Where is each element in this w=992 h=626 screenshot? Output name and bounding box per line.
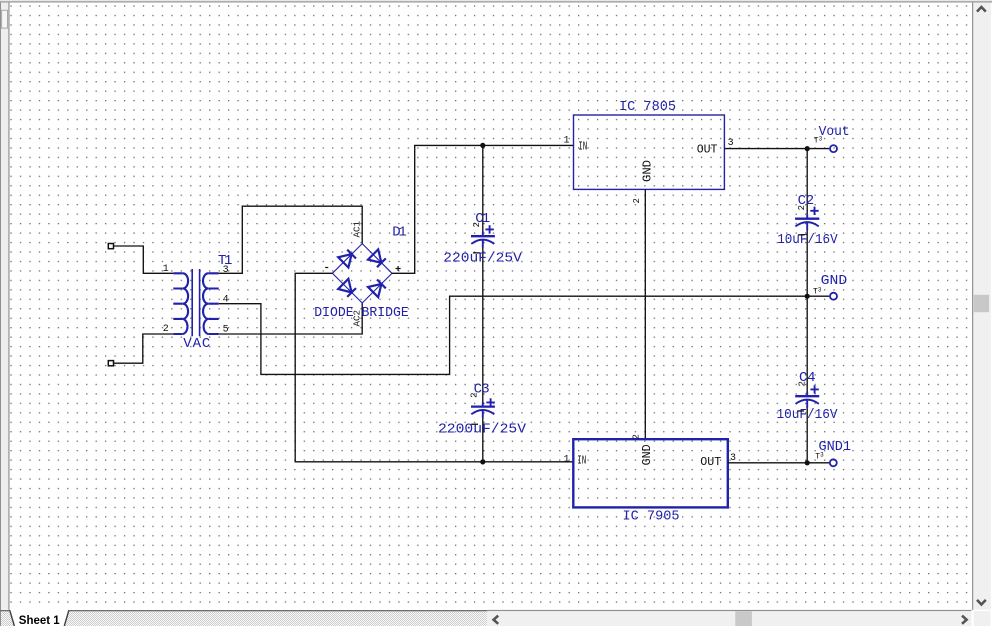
wire bridge minus to negative rail bbox=[295, 273, 573, 462]
wire P2 to T1 pin2 bbox=[114, 334, 174, 363]
junction GND1 rail / C4 bbox=[805, 460, 810, 465]
IC U2 7905 box bbox=[573, 439, 728, 507]
IC U1 7805 box bbox=[574, 115, 725, 189]
terminal T3 Vout circle bbox=[830, 145, 837, 152]
diode D1d (bottom-left) bbox=[338, 279, 356, 297]
horizontal scrollbar right arrow bbox=[962, 616, 967, 624]
C4 pin number 1 (rotated dash) bbox=[797, 410, 804, 411]
canvas bottom border bbox=[0, 610, 487, 611]
svg-text:2200uF/25V: 2200uF/25V bbox=[438, 422, 527, 438]
horizontal scrollbar left arrow bbox=[494, 616, 499, 624]
terminal P2 (bottom-left connector square) bbox=[108, 361, 113, 366]
canvas left border bbox=[8, 3, 9, 610]
capacitor C3 bbox=[471, 398, 495, 418]
transformer T1 secondary winding bbox=[203, 273, 219, 334]
wire C1-C3 vertical bbox=[482, 145, 484, 462]
vertical scrollbar track bbox=[973, 3, 991, 610]
svg-text:3: 3 bbox=[728, 138, 734, 149]
svg-text:GND: GND bbox=[640, 444, 654, 465]
vertical scrollbar thumb bbox=[974, 295, 989, 312]
wire U2 OUT to GND1 terminal bbox=[728, 462, 829, 464]
svg-text:AC1: AC1 bbox=[351, 221, 362, 238]
diode D1c (bottom-right) bbox=[368, 280, 386, 298]
junction GND rail / C2 C4 bbox=[805, 294, 810, 299]
capacitor C1 bbox=[471, 225, 495, 248]
capacitor C4 bbox=[795, 385, 819, 408]
wire T1 pin5 to bridge AC2 bbox=[219, 303, 363, 334]
wire bridge plus to positive rail bbox=[392, 145, 573, 273]
svg-text:AC2: AC2 bbox=[351, 310, 362, 327]
svg-text:2: 2 bbox=[798, 381, 808, 386]
svg-text:OUT: OUT bbox=[700, 455, 721, 469]
junction on negative rail at C3 bbox=[480, 459, 485, 464]
svg-text:Vout: Vout bbox=[819, 124, 850, 140]
svg-text:OUT: OUT bbox=[697, 143, 718, 157]
svg-text:2: 2 bbox=[797, 205, 807, 210]
svg-text:1: 1 bbox=[564, 454, 570, 465]
terminal P1 (top-left connector square) bbox=[108, 244, 113, 249]
svg-text:2: 2 bbox=[472, 222, 482, 227]
C3 pin number 1 (rotated dash) bbox=[471, 424, 478, 425]
horizontal scrollbar track bbox=[487, 611, 972, 626]
sheet tab bar dither background bbox=[1, 611, 487, 626]
svg-text:GND: GND bbox=[640, 160, 654, 182]
svg-text:2: 2 bbox=[632, 198, 642, 203]
vertical scrollbar up arrow bbox=[977, 7, 986, 12]
junction Vout rail / C2 bbox=[805, 146, 810, 151]
svg-text:IN: IN bbox=[577, 453, 586, 467]
wire C2-C4 vertical bbox=[806, 149, 808, 463]
svg-text:GND: GND bbox=[821, 273, 848, 289]
svg-text:1: 1 bbox=[564, 136, 570, 147]
toolbar button remnant bbox=[2, 10, 8, 28]
wire T1 pin3 to bridge AC1 bbox=[219, 206, 363, 273]
transformer T1 core bbox=[191, 269, 200, 336]
diode bridge D1 diamond bbox=[332, 244, 392, 303]
svg-text:220uF/25V: 220uF/25V bbox=[443, 250, 522, 266]
wire P1 to T1 pin1 bbox=[114, 246, 174, 273]
terminal T3 GND1 circle bbox=[830, 459, 837, 466]
diode D1a (top-left) bbox=[338, 250, 356, 268]
diode D1b (top-right) bbox=[368, 249, 386, 267]
horizontal scrollbar thumb bbox=[735, 611, 752, 626]
svg-text:Sheet 1: Sheet 1 bbox=[19, 615, 61, 626]
svg-text:1: 1 bbox=[163, 264, 169, 275]
active sheet tab bbox=[10, 610, 69, 626]
svg-text:2: 2 bbox=[163, 324, 169, 335]
svg-text:10uF/16V: 10uF/16V bbox=[777, 232, 838, 248]
wire U1 OUT to Vout terminal bbox=[724, 148, 829, 150]
left toolbar strip bbox=[1, 3, 8, 610]
svg-text:IC 7905: IC 7905 bbox=[623, 509, 680, 525]
window left edge line bbox=[0, 3, 1, 626]
wire T1 pin4 to GND rail bbox=[219, 296, 830, 374]
svg-text:IC 7805: IC 7805 bbox=[619, 99, 676, 115]
svg-text:2: 2 bbox=[632, 434, 642, 439]
C1 pin number 1 (rotated dash) bbox=[473, 252, 480, 253]
svg-text:D1: D1 bbox=[392, 225, 407, 241]
terminal T3 GND circle bbox=[830, 293, 837, 300]
svg-text:VAC: VAC bbox=[183, 336, 210, 352]
junction on positive rail at C1 bbox=[480, 143, 485, 148]
C2 pin number 1 (rotated dash) bbox=[798, 234, 805, 235]
canvas right border bbox=[972, 3, 973, 610]
svg-text:IN: IN bbox=[578, 139, 587, 153]
svg-text:2: 2 bbox=[470, 392, 480, 397]
transformer T1 primary winding bbox=[173, 273, 188, 334]
D1 pin name + bbox=[396, 266, 401, 271]
wire GND interconnect U1 pin2 to U2 pin2 bbox=[644, 189, 646, 439]
window top border bbox=[0, 0, 992, 1]
svg-text:10uF/16V: 10uF/16V bbox=[777, 407, 839, 423]
horizontal scrollbar top edge bbox=[487, 610, 972, 611]
D1 pin name - bbox=[325, 267, 328, 269]
vertical scrollbar down arrow bbox=[977, 600, 986, 605]
scrollbar corner box bbox=[974, 611, 991, 626]
capacitor C2 bbox=[795, 207, 819, 231]
svg-text:3: 3 bbox=[223, 265, 229, 276]
